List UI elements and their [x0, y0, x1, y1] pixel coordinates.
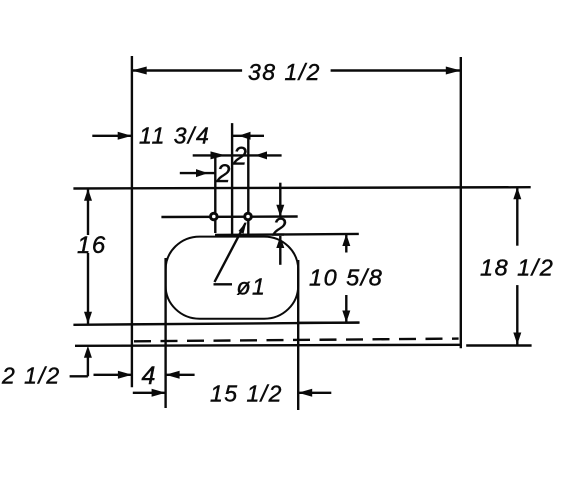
faucet hole right	[245, 213, 252, 220]
dimension 10 5/8 arrow bottom	[342, 311, 350, 323]
dimension 2 right vertical line top	[279, 183, 281, 217]
svg-text:38 1/2: 38 1/2	[248, 59, 321, 85]
dimension 2 upper line	[232, 135, 264, 137]
faucet centerline V1	[231, 123, 233, 235]
svg-text:4: 4	[142, 362, 157, 390]
dimension 2 lower arrow left	[211, 151, 226, 159]
leader arrowhead	[239, 222, 247, 234]
dimension 2 right vertical line bottom	[279, 236, 281, 265]
dimension 10 5/8 line bottom	[345, 295, 347, 323]
dimension 2 upper arrow	[239, 132, 251, 140]
dimension 15 1/2 line right	[298, 392, 331, 394]
svg-text:2: 2	[216, 160, 232, 188]
faucet hole line V3	[214, 156, 216, 233]
extension line left for 38 1/2	[131, 56, 133, 387]
dimension 2 right arrow down	[276, 205, 284, 217]
dimension 2 lower line	[193, 154, 282, 156]
dimension 2 right arrow up	[276, 236, 284, 248]
leader underline	[214, 283, 233, 285]
svg-text:15 1/2: 15 1/2	[210, 381, 283, 407]
dimension 10 5/8 arrow top	[342, 234, 350, 246]
dimension 10 5/8 line top	[345, 234, 347, 253]
leader line for hole diameter	[215, 223, 246, 282]
extension line bottom right for 18 1/2	[466, 344, 531, 346]
row3 arrowhead	[196, 169, 208, 177]
svg-text:2 1/2: 2 1/2	[1, 363, 61, 389]
dimension 38 1/2 arrow left	[132, 67, 147, 75]
dimension 2 lower arrow right	[255, 151, 267, 159]
svg-text:2: 2	[272, 214, 288, 242]
hidden overhang dashed line	[134, 339, 459, 342]
dimension 2 1/2 tail vertical	[87, 356, 89, 376]
front edge of countertop	[73, 323, 358, 325]
svg-text:18 1/2: 18 1/2	[480, 255, 554, 281]
dimension 18 1/2 line top	[516, 187, 518, 246]
svg-text:ø1: ø1	[237, 274, 267, 300]
faucet hole left	[211, 213, 218, 220]
svg-text:11 3/4: 11 3/4	[139, 123, 210, 149]
dimension 4 line left	[94, 374, 132, 376]
faucet holes centerline horizontal	[161, 215, 297, 218]
dimension 18 1/2 arrow bottom	[513, 333, 521, 345]
dimension 16 arrow bottom	[84, 312, 92, 324]
dimension 11 3/4 line	[92, 135, 131, 137]
dimension chain arrow row3	[180, 172, 215, 174]
dimension 16 line bottom	[87, 253, 89, 324]
dimension 4 arrow right	[166, 371, 180, 379]
faucet hole line V2	[247, 136, 249, 235]
back edge of countertop	[73, 187, 530, 188]
dimension 11 3/4 arrow	[118, 132, 132, 140]
dimension 15 1/2 line left	[133, 392, 166, 394]
dimension 18 1/2 line bottom	[516, 285, 518, 344]
cutout bottom extension line	[298, 321, 360, 324]
cutout top extension line	[215, 234, 359, 235]
svg-text:10 5/8: 10 5/8	[309, 265, 383, 291]
extension line cutout right	[297, 260, 299, 410]
extension line right for 38 1/2	[460, 57, 462, 348]
dimension 38 1/2 arrow right	[446, 67, 461, 75]
dimension 18 1/2 arrow top	[513, 187, 521, 199]
dimension 38 1/2 line right part	[331, 69, 461, 71]
svg-text:16: 16	[77, 232, 107, 259]
lower front line	[75, 345, 461, 346]
sink cutout rounded rectangle	[166, 237, 299, 319]
dimension 2 1/2 tail horizontal	[70, 375, 88, 377]
dimension 2 1/2 arrow	[84, 346, 92, 358]
svg-text:2: 2	[232, 143, 248, 171]
dimension 38 1/2 line left part	[132, 69, 242, 71]
extension line cutout left	[164, 258, 166, 408]
dimension 4 arrow left	[118, 371, 132, 379]
dimension 4 line right	[166, 374, 195, 376]
dimension 16 line top	[87, 189, 89, 235]
dimension 15 1/2 arrow right	[298, 389, 312, 397]
dimension 16 arrow top	[84, 189, 92, 201]
dimension 15 1/2 arrow left	[152, 389, 166, 397]
